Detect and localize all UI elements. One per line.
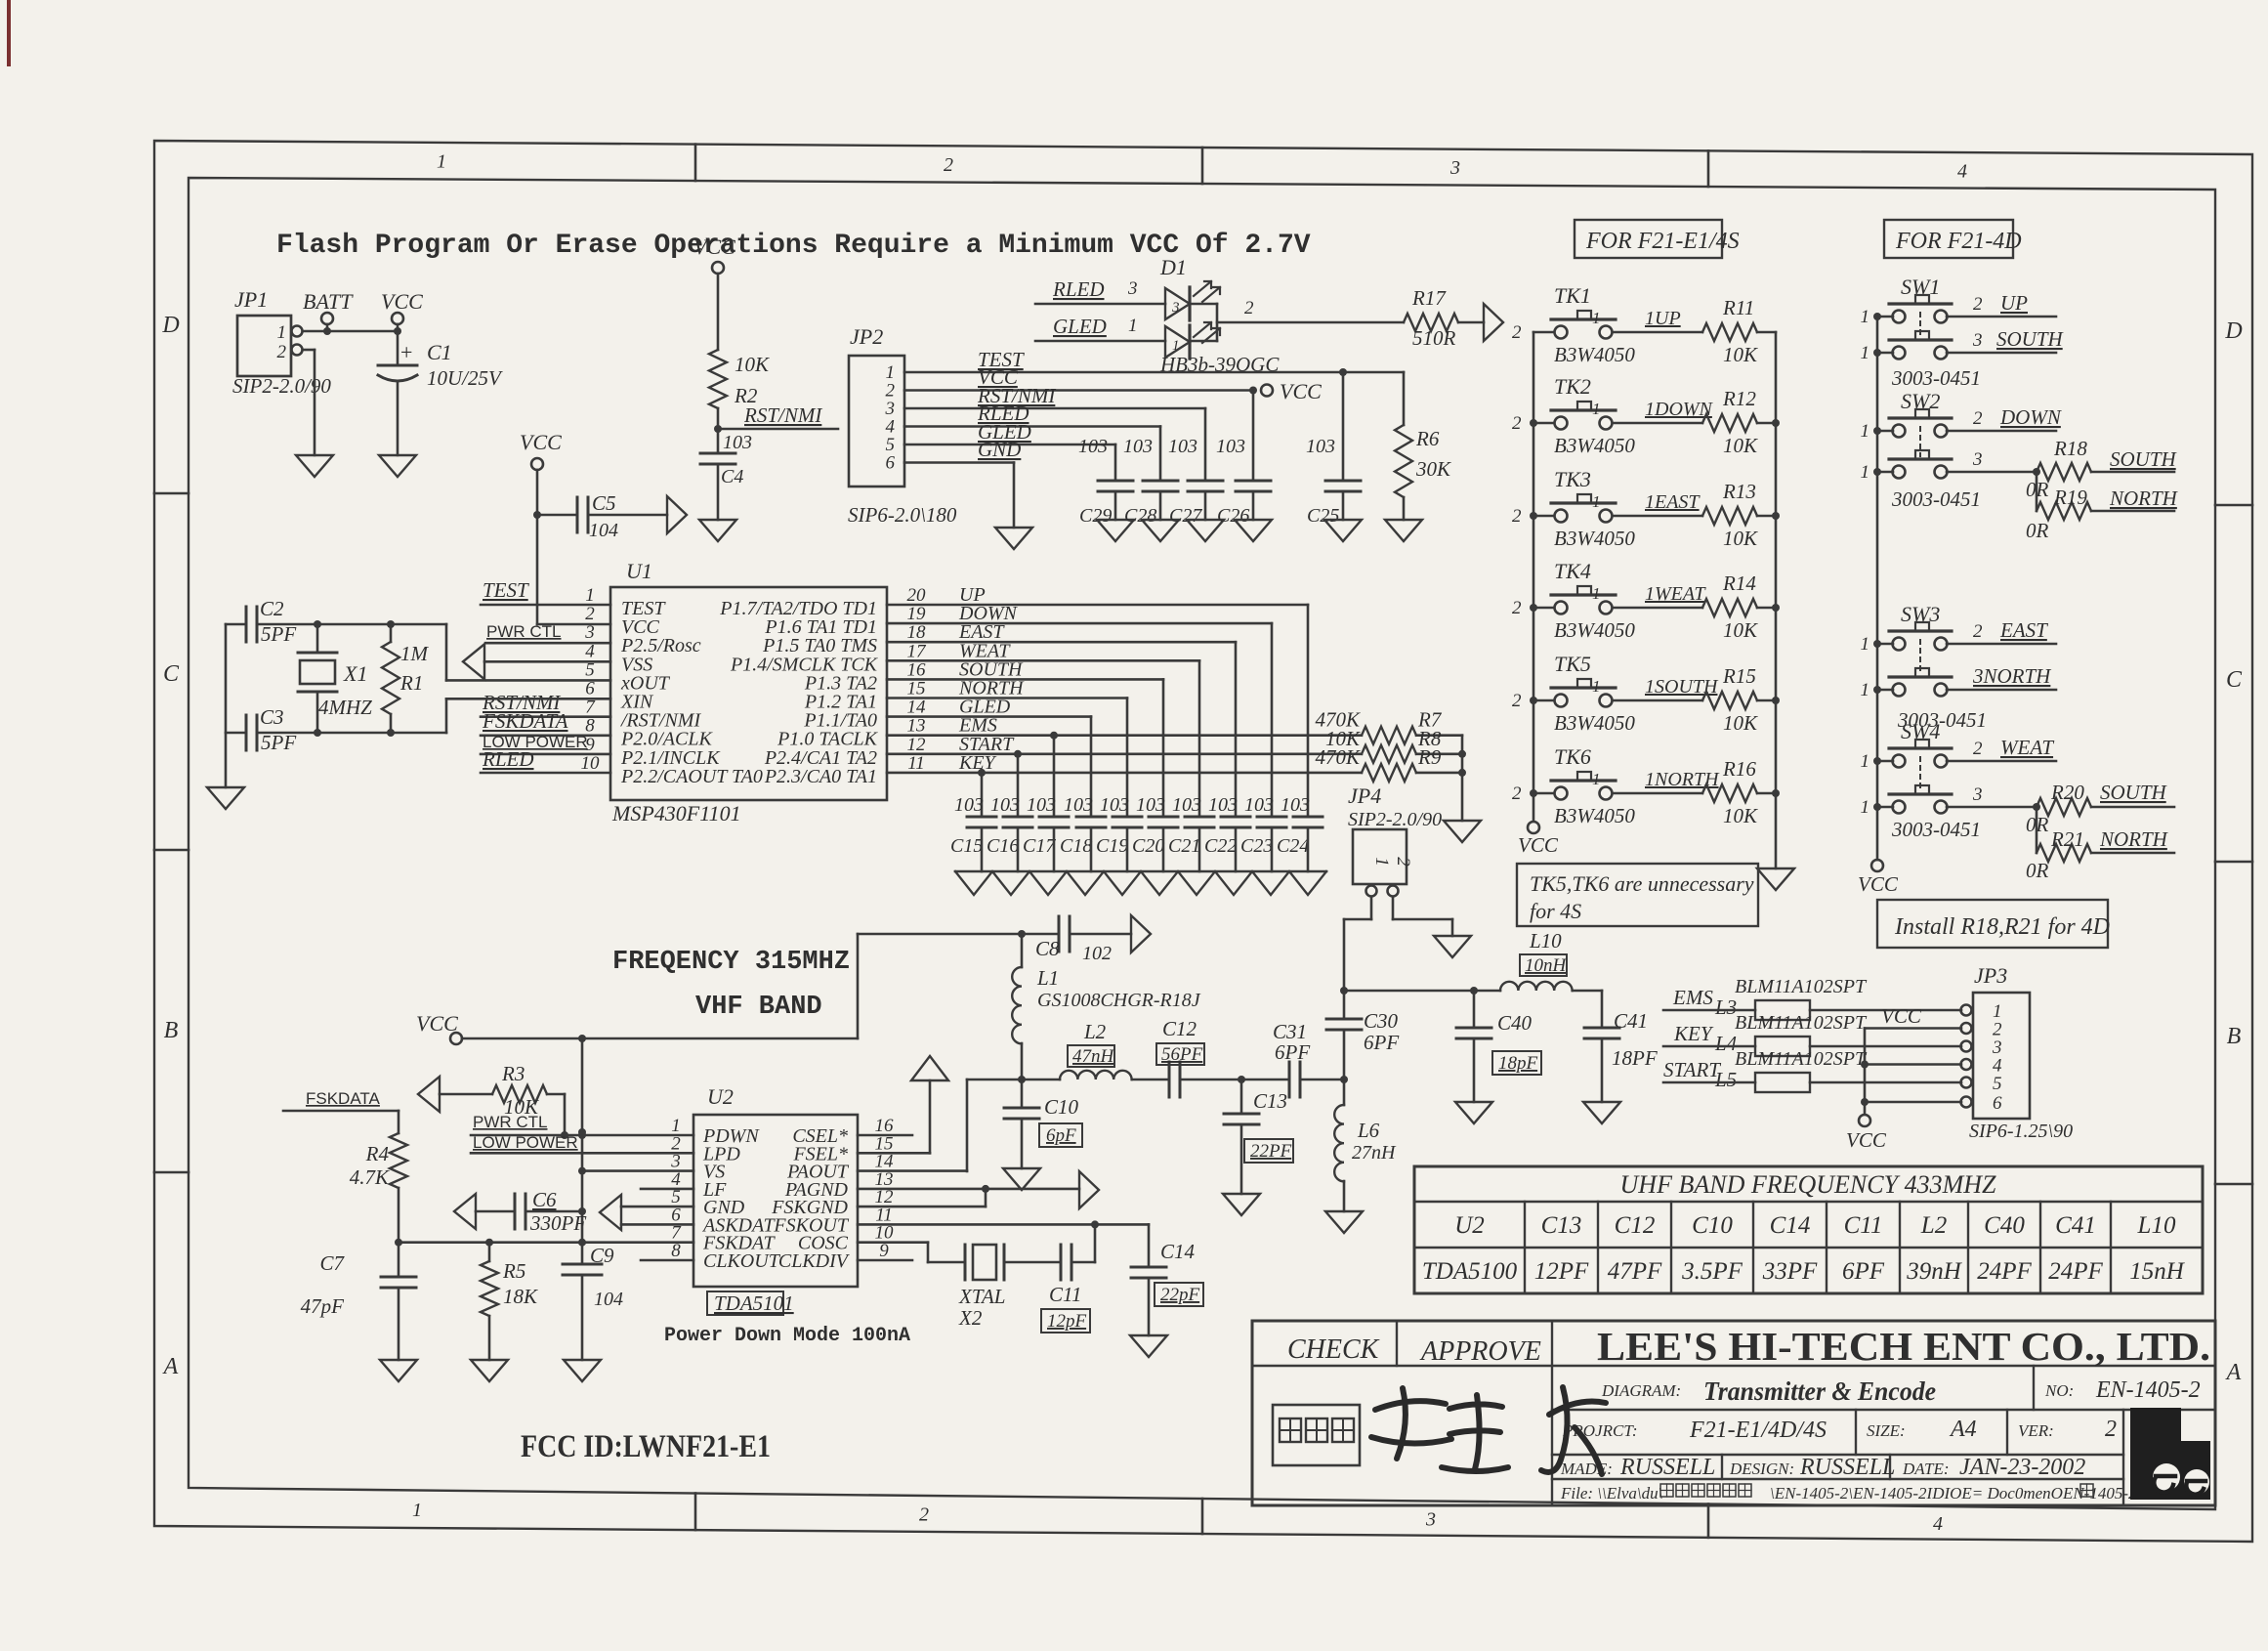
wire EMS to R7 <box>887 732 1362 817</box>
net VCC from JP2 pin2 <box>904 365 1257 395</box>
svg-text:33PF: 33PF <box>1762 1258 1818 1285</box>
switch SW3 3003-0451 <box>1861 602 1953 700</box>
ground C40 <box>1455 1102 1492 1123</box>
net PWR CTL to U2 pin1 <box>471 1113 693 1139</box>
resistor R18 0R <box>2026 437 2178 501</box>
net label RLED to U1 pin10 <box>481 747 610 773</box>
svg-text:SIP2-2.0/90: SIP2-2.0/90 <box>232 374 331 398</box>
field DATE JAN-23-2002 <box>1902 1455 2085 1480</box>
svg-text:U2: U2 <box>1454 1212 1485 1239</box>
svg-text:2: 2 <box>2105 1417 2117 1442</box>
svg-text:L1: L1 <box>1036 966 1059 990</box>
svg-text:470K: 470K <box>1315 745 1361 769</box>
ground JP4 <box>1434 936 1471 957</box>
svg-text:TK5: TK5 <box>1554 652 1591 676</box>
arrow out of C5 <box>667 496 687 533</box>
net KEY label <box>1673 1022 1714 1045</box>
svg-text:2: 2 <box>1512 413 1522 434</box>
svg-text:6PF: 6PF <box>1842 1258 1885 1285</box>
inductor L1 GS1008CHGR-R18J <box>1012 934 1201 1079</box>
caption box FOR F21-4D <box>1884 220 2022 258</box>
svg-text:2: 2 <box>585 604 595 624</box>
svg-text:103: 103 <box>1168 436 1197 457</box>
stub U2 pin9 CLKDIV <box>858 1259 912 1262</box>
svg-text:C41: C41 <box>1614 1009 1648 1033</box>
svg-text:L5: L5 <box>1714 1068 1737 1091</box>
svg-text:2: 2 <box>919 1504 929 1526</box>
capacitor C22 103 <box>1204 794 1250 871</box>
wire WEAT to C21 <box>887 660 1199 817</box>
svg-text:4MHZ: 4MHZ <box>318 696 372 719</box>
svg-text:12pF: 12pF <box>1047 1311 1087 1332</box>
title APPROVE <box>1419 1336 1541 1367</box>
node VCC above R2 <box>693 234 735 350</box>
net EAST from SW3 <box>1947 618 2056 644</box>
svg-text:12PF: 12PF <box>1534 1258 1589 1285</box>
svg-text:RST/NMI: RST/NMI <box>743 403 822 427</box>
ground C4 <box>699 520 736 541</box>
svg-text:TEST: TEST <box>483 578 529 602</box>
svg-text:2: 2 <box>1393 857 1413 867</box>
svg-text:1: 1 <box>1861 680 1870 700</box>
ground C28 <box>1142 520 1179 541</box>
node A junction <box>1018 1076 1026 1083</box>
svg-text:MADE:: MADE: <box>1560 1460 1613 1478</box>
svg-text:2: 2 <box>1512 691 1522 711</box>
wire JP1 pin1 to VCC node <box>303 327 401 335</box>
svg-text:330PF: 330PF <box>529 1211 586 1235</box>
svg-text:6: 6 <box>1993 1093 2002 1114</box>
svg-text:R5: R5 <box>502 1259 525 1283</box>
svg-text:1: 1 <box>1592 492 1601 511</box>
ferrite bead L3 BLM11A102SPT <box>1663 976 1961 1020</box>
svg-text:X2: X2 <box>958 1306 983 1330</box>
inductor L10 10nH <box>1474 929 1602 1028</box>
svg-text:C10: C10 <box>1044 1095 1079 1119</box>
capacitor C23 103 <box>1240 794 1286 871</box>
net WEAT from SW4 <box>1947 736 2056 761</box>
svg-text:PWR CTL: PWR CTL <box>486 622 562 641</box>
wire R7 R8 R9 common <box>1458 736 1466 821</box>
svg-text:6PF: 6PF <box>1275 1040 1310 1064</box>
svg-text:6: 6 <box>886 453 896 474</box>
wire SW2 pin3 <box>1947 449 2040 476</box>
wire JP4 pin1 to RF node <box>1340 897 1371 995</box>
svg-text:3: 3 <box>1425 1508 1436 1530</box>
svg-text:RUSSELL: RUSSELL <box>1799 1455 1895 1480</box>
svg-text:1: 1 <box>1592 770 1601 788</box>
svg-text:A: A <box>2225 1360 2242 1385</box>
svg-text:103: 103 <box>990 794 1020 816</box>
wire DOWN to C23 <box>887 623 1272 817</box>
svg-text:B3W4050: B3W4050 <box>1554 343 1635 366</box>
field PROJRCT F21-E1/4D/4S <box>1562 1418 1827 1443</box>
ground R7R8R9 <box>1444 821 1481 842</box>
svg-text:3003-0451: 3003-0451 <box>1891 487 1981 511</box>
svg-text:NORTH: NORTH <box>2099 827 2169 851</box>
svg-text:3: 3 <box>584 622 595 643</box>
svg-text:18: 18 <box>907 622 927 643</box>
svg-text:R11: R11 <box>1722 296 1754 319</box>
svg-text:C22: C22 <box>1204 835 1237 857</box>
svg-text:C12: C12 <box>1615 1212 1656 1239</box>
svg-text:\EN-1405-2\EN-1405-2IDIOE= Doc: \EN-1405-2\EN-1405-2IDIOE= Doc0menOEN-14… <box>1770 1484 2137 1503</box>
svg-text:2: 2 <box>1512 506 1522 527</box>
svg-text:SIP6-1.25\90: SIP6-1.25\90 <box>1969 1121 2073 1142</box>
svg-text:R3: R3 <box>501 1062 525 1085</box>
svg-text:R16: R16 <box>1722 757 1756 781</box>
wire VS pin3 <box>582 1169 693 1172</box>
svg-text:30K: 30K <box>1415 457 1451 481</box>
connector JP1 <box>232 287 331 398</box>
svg-text:C29: C29 <box>1079 505 1112 527</box>
resistor R1 1M <box>382 624 430 733</box>
capacitor C25 103 <box>1306 372 1361 527</box>
resistor R16 10K <box>1702 757 1776 827</box>
svg-text:CLKOUT: CLKOUT <box>703 1250 781 1272</box>
svg-text:10K: 10K <box>1723 711 1758 735</box>
svg-text:103: 103 <box>1216 436 1245 457</box>
svg-text:10nH: 10nH <box>1525 955 1568 976</box>
net 1WEAT <box>1613 583 1706 608</box>
wire VCC rail <box>462 930 1059 1042</box>
svg-text:C26: C26 <box>1217 505 1249 527</box>
switch TK5 B3W4050 <box>1512 652 1635 735</box>
svg-text:103: 103 <box>1123 436 1153 457</box>
capacitor C9 104 <box>563 1244 623 1360</box>
svg-text:1UP: 1UP <box>1645 308 1681 329</box>
svg-text:103: 103 <box>954 794 984 816</box>
svg-text:6PF: 6PF <box>1364 1031 1399 1054</box>
svg-text:1EAST: 1EAST <box>1645 491 1701 513</box>
svg-text:DESIGN:: DESIGN: <box>1729 1460 1794 1478</box>
field VER 2 <box>2018 1417 2117 1442</box>
svg-text:1: 1 <box>1861 307 1870 327</box>
capacitor C13 22PF <box>1224 1079 1293 1194</box>
svg-text:TK1: TK1 <box>1554 283 1591 308</box>
svg-text:1: 1 <box>1592 677 1601 696</box>
wire U2 pin11 FSKOUT <box>858 1220 1149 1267</box>
wire TK left bus <box>1530 332 1537 821</box>
svg-text:VCC: VCC <box>693 234 735 259</box>
svg-text:3003-0451: 3003-0451 <box>1897 708 1987 732</box>
svg-text:DIAGRAM:: DIAGRAM: <box>1601 1381 1681 1400</box>
svg-text:C21: C21 <box>1168 835 1200 857</box>
resistor R4 4.7K <box>350 1133 407 1247</box>
svg-text:+: + <box>400 340 412 364</box>
svg-text:22PF: 22PF <box>1250 1141 1292 1162</box>
svg-text:CHECK: CHECK <box>1287 1334 1380 1365</box>
svg-text:103: 103 <box>1244 794 1274 816</box>
svg-text:1: 1 <box>1128 316 1138 336</box>
svg-text:NO:: NO: <box>2044 1381 2074 1400</box>
ground R6 <box>1385 520 1422 541</box>
svg-text:1: 1 <box>1172 338 1180 354</box>
arrow into C6 <box>454 1194 476 1229</box>
capacitor C10 6pF <box>1004 1079 1082 1168</box>
svg-text:103: 103 <box>1172 794 1201 816</box>
svg-text:BLM11A102SPT: BLM11A102SPT <box>1735 976 1868 997</box>
svg-text:24PF: 24PF <box>1977 1258 2032 1285</box>
svg-text:0R: 0R <box>2026 859 2049 882</box>
svg-text:D1: D1 <box>1159 255 1187 279</box>
capacitor C12 56PF <box>1156 1017 1289 1097</box>
switch TK2 B3W4050 <box>1512 374 1635 457</box>
wire U2 pin10 COSC <box>858 1243 963 1262</box>
svg-text:102: 102 <box>1082 943 1112 964</box>
ground C29 <box>1097 520 1134 541</box>
svg-text:1WEAT: 1WEAT <box>1645 583 1706 605</box>
capacitor C40 18pF <box>1456 991 1541 1102</box>
svg-text:4.7K: 4.7K <box>350 1165 390 1189</box>
net START label <box>1663 1058 1721 1081</box>
svg-text:C27: C27 <box>1169 505 1202 527</box>
resistor R19 0R <box>2026 472 2179 542</box>
svg-text:KEY: KEY <box>958 752 997 774</box>
net GND from JP2 pin6 <box>904 438 1021 528</box>
ground C26 <box>1235 520 1272 541</box>
net label FSKDATA to U1 pin8 <box>481 709 610 736</box>
svg-text:10K: 10K <box>1723 343 1758 366</box>
net label TEST to U1 pin1 <box>481 578 610 605</box>
svg-text:0R: 0R <box>2026 519 2049 542</box>
net LOW POWER to U2 pin2 <box>471 1133 693 1153</box>
svg-text:TK4: TK4 <box>1554 559 1591 583</box>
ground C7 <box>380 1360 417 1381</box>
wire TEST to R6 <box>1403 372 1406 425</box>
capacitor C28 103 <box>1123 427 1178 528</box>
svg-text:JAN-23-2002: JAN-23-2002 <box>1959 1455 2085 1480</box>
svg-text:510R: 510R <box>1412 326 1456 350</box>
svg-text:for 4S: for 4S <box>1530 899 1581 923</box>
svg-text:F21-E1/4D/4S: F21-E1/4D/4S <box>1689 1418 1827 1443</box>
caption Power Down Mode 100nA <box>664 1325 910 1347</box>
svg-text:3: 3 <box>1972 784 1983 805</box>
svg-text:C16: C16 <box>987 835 1019 857</box>
svg-text:L2: L2 <box>1920 1212 1947 1239</box>
svg-text:C1: C1 <box>427 340 452 364</box>
svg-text:C11: C11 <box>1049 1283 1081 1306</box>
svg-text:C19: C19 <box>1096 835 1128 857</box>
wire XIN to U1 pin6 <box>446 698 610 733</box>
capacitor C19 103 <box>1096 794 1142 871</box>
svg-text:FSKDATA: FSKDATA <box>482 709 568 733</box>
svg-text:LOW POWER: LOW POWER <box>473 1133 578 1152</box>
svg-text:6pF: 6pF <box>1046 1125 1076 1146</box>
resistor R14 10K <box>1702 571 1776 642</box>
switch TK1 B3W4050 <box>1512 283 1635 366</box>
svg-text:10K: 10K <box>1723 527 1758 550</box>
svg-text:U1: U1 <box>626 559 652 583</box>
svg-text:103: 103 <box>1027 794 1056 816</box>
ground C27 <box>1187 520 1224 541</box>
wire R2 to C4 node RST/NMI <box>714 403 838 453</box>
wire SW4 pin3 <box>1947 784 2040 811</box>
svg-text:TDA5100: TDA5100 <box>1422 1258 1518 1285</box>
svg-text:C28: C28 <box>1124 505 1156 527</box>
svg-text:Flash Program Or Erase Operati: Flash Program Or Erase Operations Requir… <box>276 231 1311 261</box>
capacitor C2 5PF <box>226 597 446 646</box>
svg-text:C40: C40 <box>1497 1011 1533 1035</box>
svg-text:104: 104 <box>589 520 618 541</box>
svg-text:104: 104 <box>594 1289 623 1310</box>
svg-text:39nH: 39nH <box>1906 1258 1963 1285</box>
svg-text:JP1: JP1 <box>234 287 268 312</box>
svg-text:C: C <box>2226 667 2243 693</box>
svg-text:103: 103 <box>1064 794 1093 816</box>
wire SW left bus <box>1876 317 1879 860</box>
svg-text:JP3: JP3 <box>1974 963 2007 988</box>
svg-text:File: \\Elva\du\: File: \\Elva\du\ <box>1560 1484 1662 1503</box>
svg-text:GND: GND <box>978 438 1021 461</box>
net FSKDATA label <box>283 1089 399 1133</box>
svg-text:UHF BAND FREQUENCY 433MHZ: UHF BAND FREQUENCY 433MHZ <box>1620 1170 1996 1199</box>
svg-text:3003-0451: 3003-0451 <box>1891 366 1981 390</box>
svg-text:C: C <box>163 661 180 687</box>
svg-text:103: 103 <box>1100 794 1129 816</box>
svg-text:KEY: KEY <box>1673 1022 1714 1045</box>
inductor L2 47nH <box>1022 1020 1169 1079</box>
net label RST/NMI to U1 pin7 <box>481 691 610 717</box>
svg-text:C41: C41 <box>2055 1212 2096 1239</box>
svg-text:C30: C30 <box>1364 1009 1399 1033</box>
capacitor C7 47pF <box>301 1243 416 1360</box>
svg-text:18pF: 18pF <box>1498 1053 1538 1074</box>
wire U2 pin12 FSKGND <box>858 1189 986 1206</box>
svg-text:3: 3 <box>1972 330 1983 351</box>
svg-text:C11: C11 <box>1844 1212 1883 1239</box>
svg-text:1: 1 <box>1861 462 1870 483</box>
svg-text:3.5PF: 3.5PF <box>1681 1258 1743 1285</box>
svg-text:SOUTH: SOUTH <box>1996 327 2065 351</box>
svg-text:C8: C8 <box>1035 937 1060 960</box>
wire SOUTH to C20 <box>887 679 1163 817</box>
svg-text:1M: 1M <box>400 642 430 665</box>
svg-text:1: 1 <box>1371 857 1392 867</box>
svg-text:R4: R4 <box>365 1142 390 1165</box>
ground JP1 pin2 <box>296 455 333 477</box>
svg-text:103: 103 <box>1281 794 1310 816</box>
svg-text:22pF: 22pF <box>1160 1285 1200 1305</box>
wire EAST to C22 <box>887 642 1236 817</box>
svg-text:15: 15 <box>907 679 926 699</box>
svg-text:NORTH: NORTH <box>2109 487 2179 510</box>
svg-text:2: 2 <box>944 154 953 176</box>
arrow out of C8 <box>1131 915 1151 952</box>
wire KEY to R9 <box>887 769 1362 817</box>
svg-text:1: 1 <box>412 1500 422 1521</box>
table UHF BAND FREQUENCY 433MHZ <box>1414 1166 2203 1293</box>
svg-text:R9: R9 <box>1417 745 1442 769</box>
svg-text:19: 19 <box>907 604 927 624</box>
svg-text:C2: C2 <box>260 597 284 620</box>
resistor R7 470K <box>1315 708 1462 744</box>
svg-text:2: 2 <box>1512 322 1522 343</box>
net 1DOWN <box>1613 399 1714 423</box>
svg-text:D: D <box>2224 318 2242 344</box>
svg-text:START: START <box>1663 1058 1721 1081</box>
svg-text:EN-1405-2: EN-1405-2 <box>2095 1377 2201 1403</box>
resistor R3 10K <box>440 1062 565 1132</box>
svg-text:3: 3 <box>1171 300 1180 316</box>
svg-text:BATT: BATT <box>303 289 354 314</box>
svg-text:B3W4050: B3W4050 <box>1554 434 1635 457</box>
svg-text:MSP430F1101: MSP430F1101 <box>611 801 741 825</box>
ground TK bus <box>1757 868 1794 890</box>
svg-text:U2: U2 <box>707 1084 734 1109</box>
title block frame <box>1252 1321 2215 1505</box>
svg-text:47PF: 47PF <box>1608 1258 1662 1285</box>
svg-text:PWR CTL: PWR CTL <box>473 1113 548 1131</box>
ground JP2 GND <box>995 528 1032 549</box>
net 1EAST <box>1613 491 1702 516</box>
LED D1 HB3b-39OGC <box>1159 255 1280 376</box>
wire NORTH to C19 <box>887 698 1127 818</box>
svg-text:VCC: VCC <box>1858 872 1899 896</box>
switch SW2 3003-0451 <box>1861 389 1953 483</box>
signature Lee Shih-chao <box>1371 1387 1606 1474</box>
ground crystal <box>207 787 244 809</box>
svg-text:GLED: GLED <box>1053 315 1107 338</box>
svg-text:1NORTH: 1NORTH <box>1645 769 1720 790</box>
resistor R9 470K <box>1315 745 1462 782</box>
field MADE RUSSELL <box>1560 1455 1715 1480</box>
svg-text:C20: C20 <box>1132 835 1164 857</box>
svg-text:B: B <box>2227 1024 2242 1049</box>
svg-text:2: 2 <box>1244 298 1254 318</box>
svg-text:R6: R6 <box>1415 427 1440 450</box>
svg-text:C6: C6 <box>532 1188 557 1211</box>
svg-text:C3: C3 <box>260 705 284 729</box>
svg-text:2: 2 <box>1512 598 1522 618</box>
arrow into U1 pin4 VSS <box>463 644 610 679</box>
resistor R21 0R <box>2026 807 2174 882</box>
svg-text:P2.3/CA0 TA1: P2.3/CA0 TA1 <box>764 766 877 787</box>
svg-text:10K: 10K <box>1723 804 1758 827</box>
svg-text:R20: R20 <box>2050 781 2084 804</box>
svg-text:R17: R17 <box>1411 286 1447 310</box>
svg-text:1: 1 <box>1861 751 1870 772</box>
svg-text:Transmitter & Encode: Transmitter & Encode <box>1703 1376 1936 1406</box>
svg-text:RUSSELL: RUSSELL <box>1619 1455 1715 1480</box>
svg-text:C24: C24 <box>1277 835 1309 857</box>
svg-text:1: 1 <box>1861 421 1870 442</box>
svg-text:B3W4050: B3W4050 <box>1554 804 1635 827</box>
svg-text:FREQENCY 315MHZ: FREQENCY 315MHZ <box>612 948 850 977</box>
resistor R20 0R <box>2026 781 2174 836</box>
IC U1 MSP430F1101 <box>581 559 928 825</box>
resistor R15 10K <box>1702 664 1776 735</box>
wire VCC rail to U1 pin2 <box>537 515 610 624</box>
svg-text:P2.2/CAOUT TA0: P2.2/CAOUT TA0 <box>620 766 763 787</box>
switch SW1 3003-0451 <box>1861 275 1953 363</box>
ground C41 <box>1583 1102 1620 1123</box>
svg-text:1: 1 <box>1592 400 1601 418</box>
svg-text:5PF: 5PF <box>261 622 296 646</box>
svg-text:C10: C10 <box>1692 1212 1733 1239</box>
svg-text:C7: C7 <box>319 1251 345 1275</box>
stub U2 pin4 LF <box>641 1188 693 1191</box>
svg-text:R18: R18 <box>2053 437 2087 460</box>
svg-text:3: 3 <box>1127 278 1138 299</box>
svg-text:1DOWN: 1DOWN <box>1645 399 1714 420</box>
field SIZE A4 <box>1867 1417 1977 1442</box>
svg-text:C17: C17 <box>1023 835 1056 857</box>
ground C9 <box>564 1360 601 1381</box>
svg-text:2: 2 <box>1973 408 1983 429</box>
svg-text:C15: C15 <box>950 835 983 857</box>
svg-text:JP2: JP2 <box>850 324 883 349</box>
